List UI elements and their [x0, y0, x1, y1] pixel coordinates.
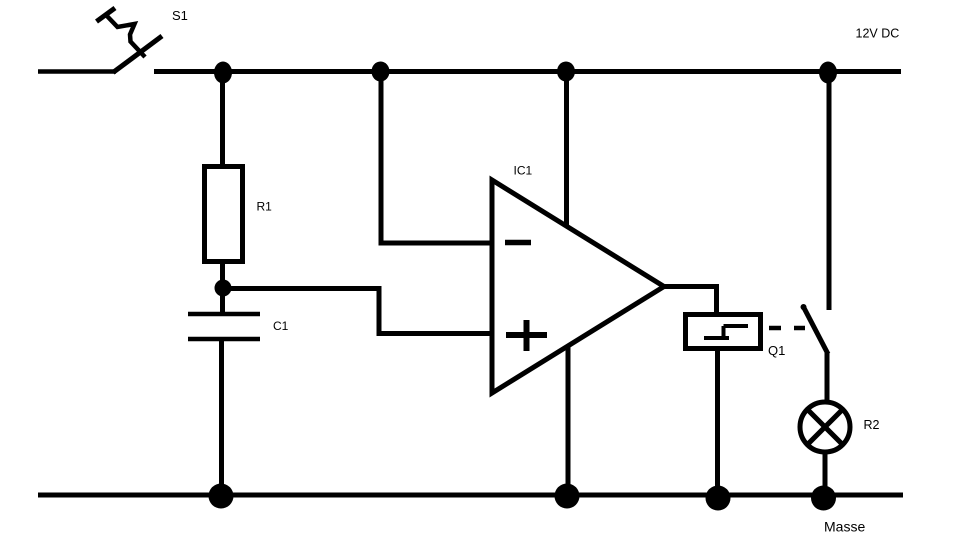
wire ground rail (Masse): [38, 493, 903, 498]
dashed actuation link: [769, 326, 805, 331]
node junction ground rail / lamp: [811, 486, 836, 511]
node junction ground rail / op-amp: [555, 484, 580, 509]
svg-text:12V DC: 12V DC: [856, 27, 900, 41]
wire inverting input: [381, 71, 492, 243]
capacitor C1: [188, 314, 260, 339]
wire C1 to ground rail: [219, 341, 224, 495]
node R1/C1 junction: [215, 280, 232, 297]
svg-text:Masse: Masse: [824, 519, 865, 535]
wire rail to contact: [827, 71, 832, 310]
wire top rail right segment (12V DC rail): [154, 69, 901, 74]
wire op-amp supply bottom: [566, 347, 571, 495]
svg-text:IC1: IC1: [514, 164, 533, 178]
wire contact to lamp: [825, 352, 830, 402]
node junction top rail / inverting branch: [372, 62, 390, 82]
lamp R2: [800, 402, 850, 452]
resistor R1: [205, 167, 243, 262]
svg-text:S1: S1: [172, 8, 188, 23]
wire non-inverting input: [227, 289, 492, 334]
node junction top rail / lamp branch: [819, 62, 837, 84]
wire node to C1: [220, 294, 225, 314]
svg-text:Q1: Q1: [768, 343, 785, 358]
op-amp IC1: [492, 180, 664, 393]
svg-text:R1: R1: [257, 200, 273, 214]
switch S1: [97, 8, 163, 73]
wire R1 to node: [220, 262, 225, 288]
wire lamp to ground rail: [823, 452, 828, 495]
wire op-amp output to relay: [664, 287, 717, 313]
node junction ground rail / C1: [209, 484, 234, 509]
wire op-amp supply top: [564, 71, 569, 226]
node junction top rail / op-amp supply: [557, 62, 575, 82]
wire rail to R1: [220, 71, 225, 166]
node junction ground rail / relay: [706, 486, 731, 511]
wire top rail left segment: [38, 69, 116, 74]
wire relay to ground rail: [715, 349, 720, 495]
node junction top rail / R1: [214, 62, 232, 84]
svg-text:R2: R2: [864, 418, 880, 432]
svg-text:C1: C1: [273, 319, 289, 333]
relay Q1: [686, 315, 761, 349]
switch contact (relay contact): [801, 304, 829, 354]
